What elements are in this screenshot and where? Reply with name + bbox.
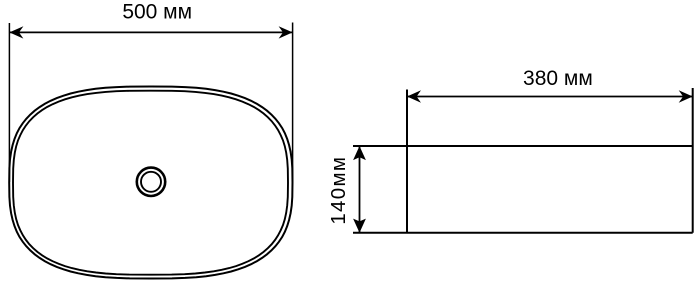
drain inner circle [141,172,161,192]
dimension 380mm: right arrowhead [679,90,693,102]
side view: left edge (with extension up) [406,90,408,233]
dimension 500mm: right arrowhead [279,26,293,38]
svg-text:140мм: 140мм [327,156,350,225]
side view: bottom edge [353,232,693,234]
dimension 140mm: bottom arrowhead [353,219,366,233]
dimension 500mm: dimension line [9,31,292,33]
side view: right edge (with extension up) [692,88,694,233]
drain outer circle [137,168,165,196]
svg-text:500 мм: 500 мм [122,1,192,24]
dimension 500mm: left arrowhead [9,26,23,38]
sink top view: inner rim [13,91,288,275]
dimension 140mm: top arrowhead [353,146,366,160]
side view: top edge [353,145,693,147]
dimension 140mm: dimension line [359,146,361,233]
dimension 500mm: right extension line [292,23,294,183]
svg-text:380 мм: 380 мм [523,67,593,90]
sink top view: outer rim [9,87,292,279]
dimension 380mm: dimension line [407,96,693,98]
dimension 500mm: left extension line [8,23,10,182]
dimension 380mm: left arrowhead [407,90,421,102]
